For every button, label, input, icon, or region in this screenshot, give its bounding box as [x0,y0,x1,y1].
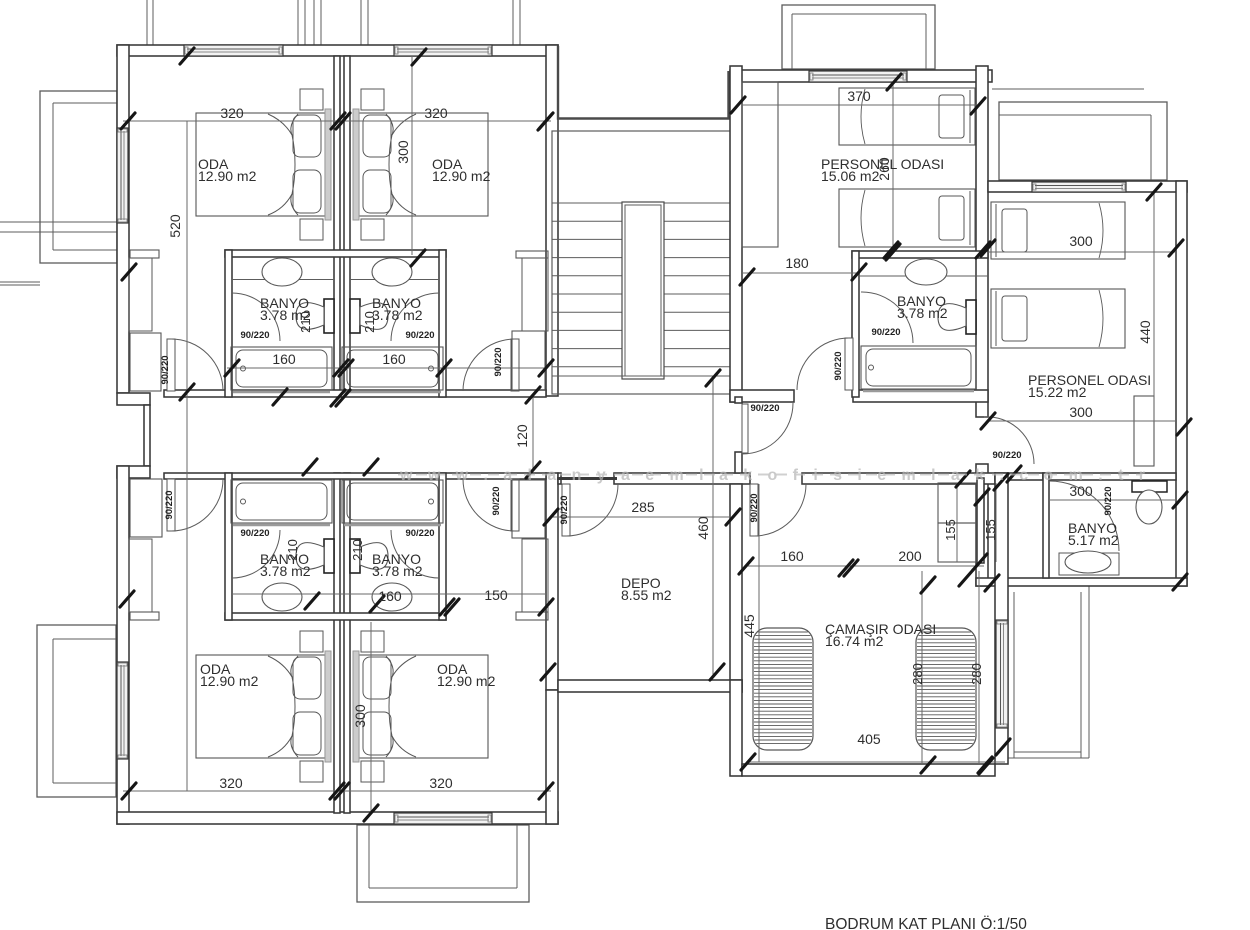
door depo [557,479,618,537]
wall staff-block bottom [730,390,988,402]
svg-text:90/220: 90/220 [749,493,760,522]
svg-text:90/220: 90/220 [992,450,1021,461]
wardrobe upper-right [512,331,545,390]
wall hall/laundry top [558,473,1043,484]
wall banyo3 left [1043,473,1049,578]
door bathroom4 [391,530,439,578]
wall hall door side [735,397,742,473]
svg-text:90/220: 90/220 [833,351,844,380]
dim 300 room2 [395,140,411,164]
party wall upper B [344,56,350,396]
sink banyo3 counter [1059,553,1119,575]
dim line 160-200 laundry [746,565,984,567]
counter line bathroom1 [232,279,334,281]
dim 260 [876,157,892,181]
bathtub banyo2 [861,346,976,391]
light shaft right of laundry [1008,586,1089,758]
svg-text:210: 210 [298,311,313,333]
svg-text:120: 120 [514,424,530,448]
svg-text:15.06 m2: 15.06 m2 [821,168,880,184]
door label bathroom1 [240,330,269,341]
dim line 300 right top [988,251,1176,253]
door hall-east [742,403,793,454]
wardrobe upper-left [130,333,161,391]
svg-text:300: 300 [352,704,368,728]
dim 370 [847,88,871,104]
dim line bathrooms 160 [227,367,546,369]
door label hall-east [750,403,779,414]
wall bathrooms bottom [225,613,446,620]
svg-text:200: 200 [898,548,922,564]
terrace bottom [357,825,529,902]
wall bathroom4 right [439,473,446,620]
dim 120 [514,424,530,448]
bed right1 [991,202,1125,259]
svg-text:90/220: 90/220 [493,347,504,376]
counter line bathroom2 [350,279,439,281]
svg-text:300: 300 [1069,233,1093,249]
svg-text:180: 180 [785,255,809,271]
svg-text:520: 520 [167,214,183,238]
door label staff [833,351,844,380]
window laundry right [996,620,1008,728]
stair landing rail [622,202,664,379]
dim line 460 [712,378,714,678]
wall bathroom1 left [225,250,232,397]
dim line 285 [551,516,731,518]
svg-text:260: 260 [876,157,892,181]
wall passage [977,478,984,563]
svg-text:320: 320 [219,775,243,791]
svg-text:300: 300 [1069,404,1093,420]
svg-text:280: 280 [910,663,925,685]
upper floor wall stub above bedroom 2 [361,0,368,45]
wall laundry step [730,680,995,776]
svg-text:370: 370 [847,88,871,104]
svg-text:320: 320 [424,105,448,121]
dim 160 b [382,351,406,367]
terrace above staff room [782,5,935,69]
wall staff-block top [730,70,992,82]
door bedroom2 [463,339,519,391]
wardrobe staff room [742,82,778,247]
party wall lower B [344,473,350,813]
label right room [1028,372,1151,400]
label bathroom3 [260,551,311,579]
label staff room [821,156,944,184]
dim line lower 160-150 [232,593,546,595]
svg-text:405: 405 [857,731,881,747]
counter line bathroom3 [232,593,334,595]
dim 300 banyo3 [1069,483,1093,499]
dim 160 c [378,588,402,604]
svg-text:285: 285 [631,499,655,515]
dim line 300 room4 [370,622,372,812]
dim line 440 [1153,192,1155,421]
dim line 405 [746,761,1005,763]
upper floor wall stub above left block [147,0,153,45]
dim 405 [857,731,881,747]
wall left-block left lower [117,466,129,824]
svg-text:90/220: 90/220 [160,355,171,384]
dim line 155 a [956,483,958,562]
dim 155 a [943,519,958,541]
window bedroom4 bottom [394,813,492,824]
svg-text:210: 210 [285,539,300,561]
bed staff1 [839,88,975,145]
section line stub left [0,222,117,232]
dim 285 [631,499,655,515]
wall staff/right divider [976,66,988,586]
dim line 300 room2 [411,56,413,255]
svg-text:300: 300 [1069,483,1093,499]
wall depo bottom [558,680,742,692]
door label bathroom2 [405,330,434,341]
dim 320 a [220,105,244,121]
wall left-block bottom-right [546,690,558,824]
svg-text:15.22 m2: 15.22 m2 [1028,384,1087,400]
label room3 [200,661,259,689]
door label bedroom2 [493,347,504,376]
dim line 320 bottom [123,790,551,792]
door label bedroom3 [164,490,175,519]
door bathroom1 [232,293,280,341]
wall left-block bottom [117,812,558,824]
door label banyo3 [1103,486,1114,515]
svg-text:90/220: 90/220 [240,528,269,539]
dim 300 room4 [352,704,368,728]
toilet bathroom2 [350,299,388,333]
door label right room [992,450,1021,461]
bed staff2 [839,189,975,247]
dim line 280 a [921,571,923,764]
svg-text:w w w . a l a n y a e m l a k: w w w . a l a n y a e m l a k o f i s i … [399,467,1145,484]
door banyo2 [861,292,913,343]
party wall upper A [334,56,340,396]
svg-text:90/220: 90/220 [750,403,779,414]
dim line 370 [742,104,978,106]
door laundry [750,484,806,536]
wall corridor top [164,390,546,397]
svg-text:445: 445 [741,614,757,638]
counter line banyo2 [859,275,988,277]
upper floor wall stub above right bedroom [513,0,520,45]
svg-text:210: 210 [362,311,377,333]
stair bottom line [552,375,735,377]
door bathroom2 [391,293,439,341]
dimension ticks [120,48,1191,821]
svg-text:12.90 m2: 12.90 m2 [437,673,496,689]
svg-text:210: 210 [350,539,365,561]
svg-text:160: 160 [780,548,804,564]
washing machine 1 [753,628,813,750]
door banyo3 [1049,481,1119,551]
section line stub left lower [0,282,40,285]
wall laundry right [995,473,1008,764]
watermark [398,467,1145,484]
wall right-block top [988,181,1187,192]
dim 180 [785,255,809,271]
washing machine 2 [916,628,976,750]
dim 155 b [983,519,998,541]
dim 460 [695,516,711,540]
door label bedroom1 [160,355,171,384]
wall bathroom3 left [225,473,232,620]
dim 160 laundry [780,548,804,564]
wall step upper [117,393,150,405]
bathtub bathroom4 [342,480,443,525]
svg-text:90/220: 90/220 [871,327,900,338]
svg-text:3.78 m2: 3.78 m2 [897,305,948,321]
dim 150 [484,587,508,603]
dim 440 [1137,320,1153,344]
dim line 120 passage [532,396,534,470]
svg-text:90/220: 90/220 [240,330,269,341]
party wall lower A [334,473,340,813]
dim line 300 banyo3 [1049,499,1176,501]
wall recess outline [558,46,729,119]
balcony left-lower [37,625,116,797]
sink bathroom4 [372,583,412,611]
wall left-block right upper [546,45,558,396]
door bathroom3 [232,530,280,578]
door bedroom1 [167,339,223,391]
roof line right [992,88,1144,90]
bed bedroom1 [196,89,331,240]
wardrobe lower-right [512,480,548,620]
svg-text:BODRUM KAT PLANI Ö:1/50: BODRUM KAT PLANI Ö:1/50 [825,915,1027,930]
shelf upper-right [516,251,548,331]
wall step lower [117,466,150,478]
door label bathroom4 [405,528,434,539]
dim 160 a [272,351,296,367]
upper floor wall stub above bedroom party wall [298,0,321,45]
wall bathroom2 right [439,250,446,397]
toilet banyo3 [1132,481,1167,524]
dim 210 a [298,311,313,333]
wall left-block right lower [546,473,558,690]
title [825,915,1027,930]
dim 320 c [219,775,243,791]
bathtub bathroom3 [231,480,332,525]
svg-text:3.78 m2: 3.78 m2 [372,307,423,323]
wall right-block right [1176,181,1187,586]
dim line 320 top [123,120,551,122]
door right room [984,417,1034,464]
dim line 445 [758,484,760,762]
sink bathroom1 [262,258,302,286]
bathtub bathroom1 [231,347,332,392]
svg-text:300: 300 [395,140,411,164]
toilet banyo2 [938,300,976,334]
svg-text:12.90 m2: 12.90 m2 [432,168,491,184]
window bedroom2 top [394,45,492,56]
svg-text:12.90 m2: 12.90 m2 [198,168,257,184]
svg-text:12.90 m2: 12.90 m2 [200,673,259,689]
stairwell box [552,131,735,394]
dim line 520 [186,121,188,791]
svg-text:160: 160 [382,351,406,367]
dim 300 right a [1069,233,1093,249]
svg-text:3.78 m2: 3.78 m2 [372,563,423,579]
label laundry [825,621,936,649]
wall right-block bottom [976,578,1187,586]
bed bedroom2 [353,89,488,240]
label room2 [432,156,491,184]
wall banyo3 top [1043,473,1176,480]
wall left-block top [117,45,558,56]
window right room top [1032,182,1126,192]
dim line 180 [742,272,859,274]
terrace top-right [999,102,1167,180]
dim 200 [898,548,922,564]
svg-text:280: 280 [969,663,984,685]
label room1 [198,156,257,184]
toilet bathroom3 [296,539,334,573]
svg-text:90/220: 90/220 [405,528,434,539]
toilet bathroom4 [350,539,388,573]
wall laundry left [730,484,742,692]
svg-text:90/220: 90/220 [491,486,502,515]
bathtub bathroom2 [342,347,443,392]
svg-text:160: 160 [378,588,402,604]
window bedroom1 left [117,128,128,223]
label banyo2 [897,293,948,321]
svg-text:3.78 m2: 3.78 m2 [260,563,311,579]
bed bedroom4 [353,631,488,782]
bed right2 [991,289,1125,348]
sink bathroom2 [372,258,412,286]
svg-text:155: 155 [983,519,998,541]
label bathroom1 [260,295,311,323]
dim 210 d [350,539,365,561]
svg-text:460: 460 [695,516,711,540]
sink bathroom3 [262,583,302,611]
wall left-block left upper [117,45,129,393]
window bedroom1 top [184,45,283,56]
door label laundry [749,493,760,522]
dim 445 [741,614,757,638]
svg-text:150: 150 [484,587,508,603]
door bedroom3 [167,479,223,531]
wall corridor left [144,405,150,466]
svg-text:5.17 m2: 5.17 m2 [1068,532,1119,548]
shelf upper-left [129,250,159,331]
dim 520 [167,214,183,238]
svg-text:320: 320 [220,105,244,121]
svg-text:90/220: 90/220 [405,330,434,341]
closet right room door side [1134,396,1154,466]
window staff room top [809,71,907,82]
svg-text:90/220: 90/220 [1103,486,1114,515]
window bedroom3 left [117,662,128,759]
door label banyo2 [871,327,900,338]
label bathroom4 [372,551,423,579]
dim 210 c [285,539,300,561]
door label bedroom4 [491,486,502,515]
sink banyo3 [1065,551,1111,573]
svg-text:16.74 m2: 16.74 m2 [825,633,884,649]
dim 320 d [429,775,453,791]
label bathroom2 [372,295,423,323]
balcony top-left [40,91,117,263]
svg-text:155: 155 [943,519,958,541]
door bedroom4 [463,479,519,531]
svg-text:440: 440 [1137,320,1153,344]
svg-text:320: 320 [429,775,453,791]
dim line 155 b [995,483,997,562]
svg-text:8.55 m2: 8.55 m2 [621,587,672,603]
stair treads [552,203,735,367]
wall banyo2 box [852,251,988,397]
dim line 260 [892,83,894,250]
label room4 [437,661,496,689]
door label bathroom3 [240,528,269,539]
label banyo3 [1068,520,1119,548]
door label depo [559,495,570,524]
dim line 280 b [978,571,980,764]
label depo [621,575,672,603]
dim 280 a [910,663,925,685]
wardrobe lower-left [129,479,162,620]
shaft closet [938,483,976,562]
svg-text:160: 160 [272,351,296,367]
dim 280 b [969,663,984,685]
dim line 300 right low [988,420,1176,422]
toilet bathroom1 [296,299,334,333]
sink banyo2 [905,259,947,285]
dim 320 b [424,105,448,121]
dim 300 right b [1069,404,1093,420]
bed bedroom3 [196,631,331,782]
wall staff-block left [730,66,742,402]
svg-text:90/220: 90/220 [164,490,175,519]
door staff room [797,338,853,390]
svg-text:90/220: 90/220 [559,495,570,524]
wall corridor bottom [164,473,546,479]
dim 210 b [362,311,377,333]
wall bathrooms top [225,250,446,257]
